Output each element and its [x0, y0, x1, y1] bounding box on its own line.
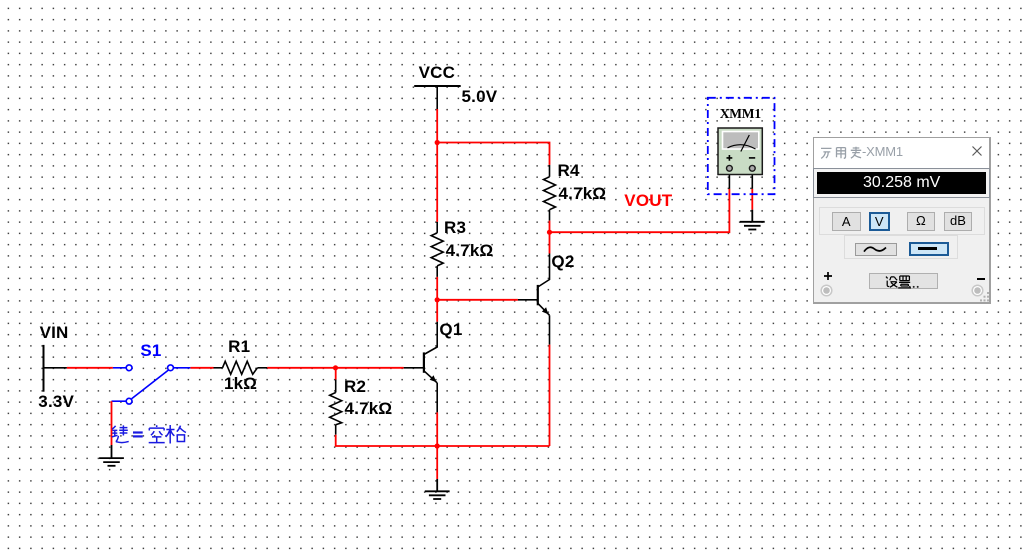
- settings CJK she-zhi: [884, 275, 926, 289]
- Q1 emitter arrow: [430, 375, 437, 382]
- junction node base: [435, 297, 440, 302]
- wire switch bottom to ground: [111, 401, 113, 445]
- wire Q2 emitter down: [549, 345, 551, 446]
- plus terminal label: [823, 271, 833, 281]
- label R4: [558, 162, 580, 179]
- group box modes: [819, 207, 985, 234]
- multimeter XMM1 icon leads: [729, 171, 752, 189]
- label 5.0V: [462, 88, 498, 105]
- label S1: [140, 342, 161, 359]
- button Ohm: [907, 212, 935, 231]
- label XMM1: [720, 106, 761, 122]
- button sine: [855, 243, 897, 256]
- label R2 value: [345, 400, 393, 417]
- wire multimeter minus lead red: [751, 189, 753, 210]
- button V selected: [869, 212, 891, 231]
- label R3 value: [446, 242, 494, 259]
- wire base junction down to Q1 collector: [436, 300, 438, 322]
- title bar: [814, 138, 990, 168]
- label key = space (CJK drawn as svg): [109, 424, 189, 445]
- ground under switch: [99, 445, 124, 466]
- label R1: [228, 338, 250, 355]
- junction node VCC: [435, 140, 440, 145]
- multimeter XMM1 icon body: [718, 128, 762, 175]
- label R3: [444, 219, 466, 236]
- switch S1: [112, 365, 191, 404]
- multimeter panel window: [813, 137, 992, 304]
- title text CJK wan-yong-biao: [820, 146, 862, 160]
- wire R1 to R2 junction: [267, 367, 335, 369]
- wire emitter rail to ground: [436, 446, 438, 479]
- readout display: [814, 169, 989, 197]
- wire R3 to base junction: [436, 277, 438, 300]
- wire base junction to Q2 base: [437, 299, 518, 301]
- ground under multimeter: [740, 210, 765, 230]
- wire VIN to switch: [67, 367, 113, 369]
- wire VOUT junction down to Q2 collector: [549, 232, 551, 253]
- label R2: [344, 378, 366, 395]
- transistor Q2: [518, 254, 550, 345]
- plus terminal circle: [820, 284, 833, 297]
- power symbol VCC: [414, 86, 461, 109]
- title text -XMM1: [862, 144, 903, 159]
- wire R4 to VOUT junction: [549, 221, 551, 233]
- Q2 emitter arrow: [542, 307, 548, 314]
- junction node VOUT: [547, 230, 552, 235]
- label VCC: [419, 64, 456, 81]
- ground under emitter rail: [425, 479, 450, 499]
- label Q2: [551, 253, 574, 270]
- group box waveform: [844, 235, 957, 259]
- wire R2 junction to Q1 base: [336, 367, 404, 369]
- label R4 value: [559, 185, 607, 202]
- minus terminal label: [977, 278, 985, 280]
- wire VCC down to R3: [436, 109, 438, 222]
- wire R2 bottom to emitter rail: [336, 435, 550, 446]
- resistor R1: [214, 361, 268, 374]
- power source VIN: [44, 345, 67, 392]
- button dB: [944, 212, 972, 231]
- label R1 value: [224, 375, 257, 392]
- wire R2 junction down: [335, 368, 337, 380]
- button A: [832, 212, 861, 231]
- close button X: [971, 145, 983, 157]
- resistor R3: [431, 222, 443, 277]
- transistor Q1: [404, 322, 438, 413]
- settings button: [869, 273, 939, 289]
- button DC selected: [909, 242, 949, 256]
- label VOUT: [624, 192, 672, 209]
- multimeter XMM1 icon selection box: [708, 98, 775, 194]
- resistor R2: [330, 380, 342, 435]
- label VIN: [40, 324, 69, 341]
- minus terminal circle: [971, 284, 984, 297]
- junction node emitter rail: [435, 443, 440, 448]
- wire Q1 emitter down: [436, 412, 438, 446]
- junction node R2 tap: [333, 365, 338, 370]
- label Q1: [439, 321, 462, 338]
- wire VCC junction to R4 top: [437, 143, 549, 165]
- wire switch to R1: [190, 367, 213, 369]
- resistor R4: [544, 165, 556, 221]
- resize grip: [979, 292, 991, 303]
- label 3.3V: [38, 393, 74, 410]
- wire VOUT junction to multimeter: [550, 189, 730, 232]
